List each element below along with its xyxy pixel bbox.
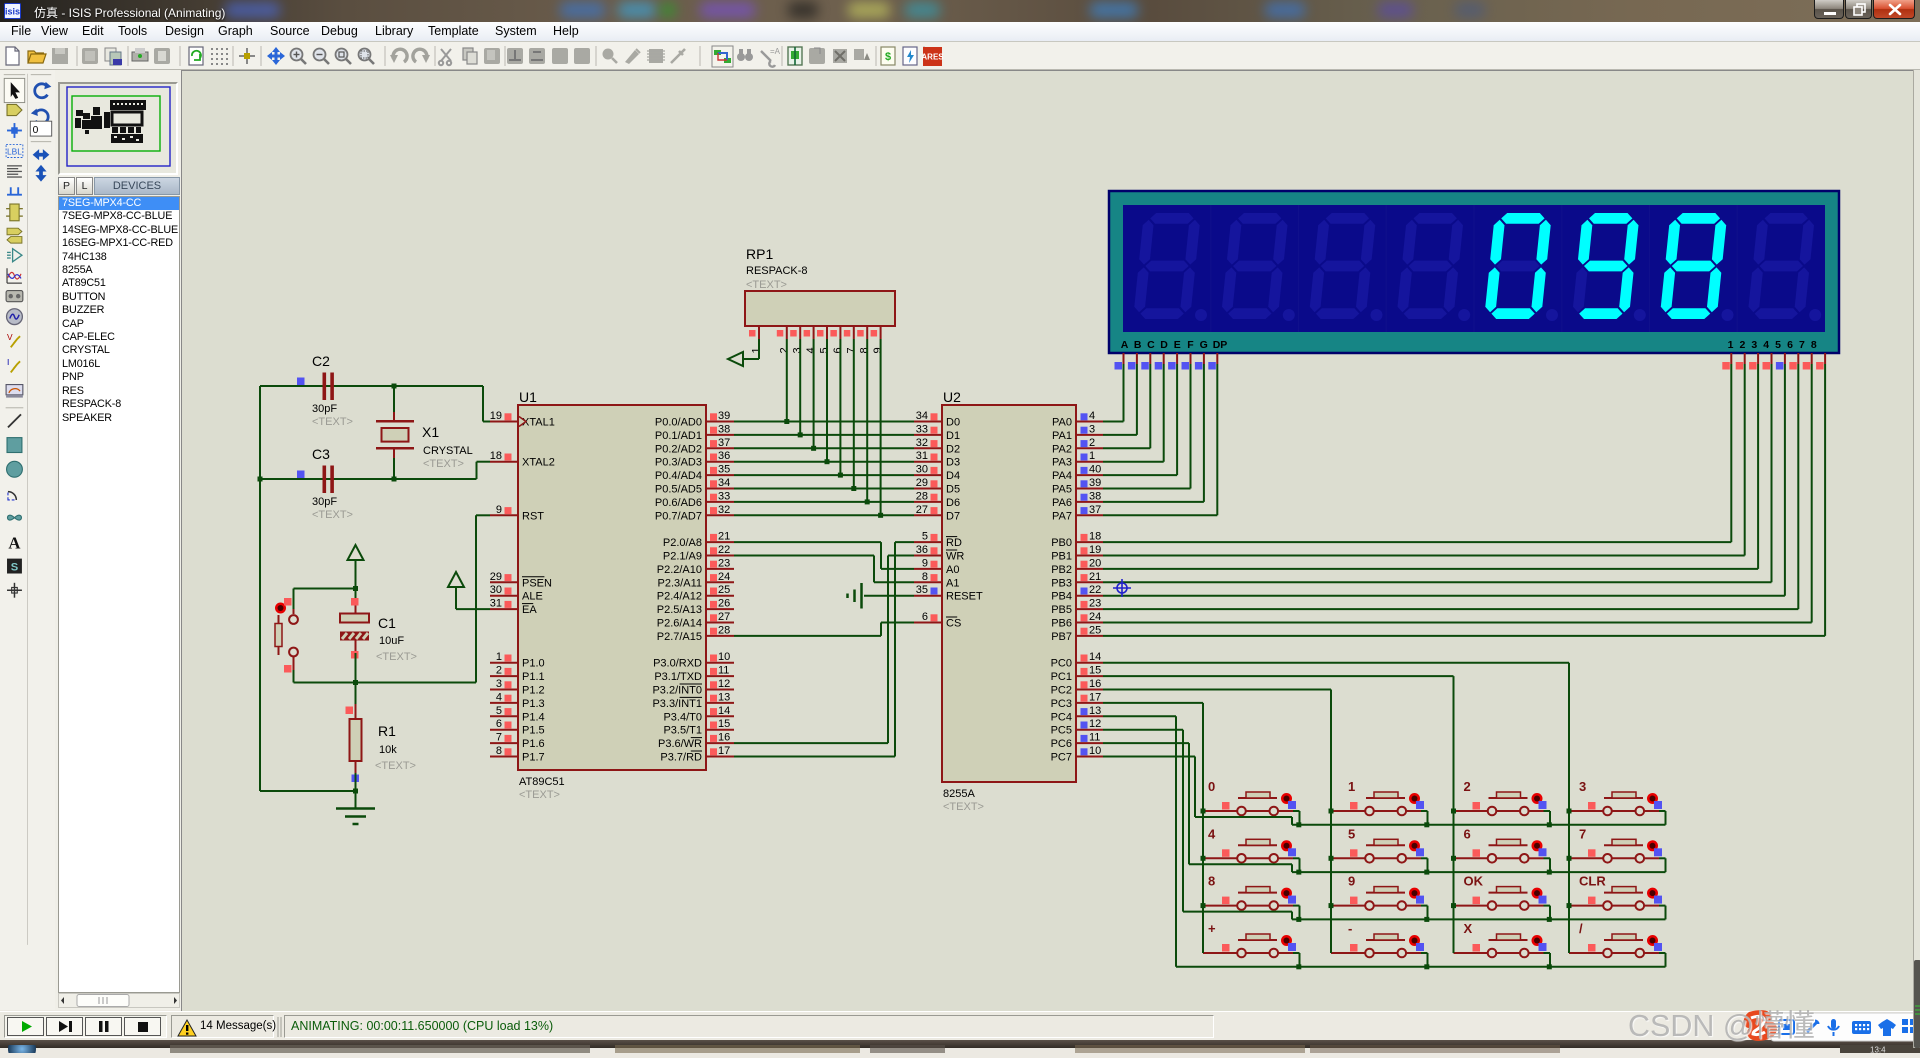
svg-text:8: 8 xyxy=(1208,874,1215,889)
svg-text:22: 22 xyxy=(1089,584,1101,596)
svg-text:31: 31 xyxy=(916,450,928,462)
svg-text:P2.1/A9: P2.1/A9 xyxy=(663,551,702,563)
svg-text:16: 16 xyxy=(1089,678,1101,690)
svg-text:P2.6/A14: P2.6/A14 xyxy=(657,618,702,630)
svg-text:D0: D0 xyxy=(946,417,960,429)
svg-text:8: 8 xyxy=(496,745,502,757)
svg-text:4: 4 xyxy=(496,691,502,703)
svg-text:35: 35 xyxy=(916,584,928,596)
svg-text:PC0: PC0 xyxy=(1051,658,1072,670)
svg-text:G: G xyxy=(1200,339,1208,351)
svg-text:4: 4 xyxy=(1089,410,1095,422)
svg-text:PA0: PA0 xyxy=(1052,417,1072,429)
svg-text:C2: C2 xyxy=(312,353,330,369)
svg-text:PC7: PC7 xyxy=(1051,752,1072,764)
svg-text:CS: CS xyxy=(946,618,961,630)
svg-text:/: / xyxy=(1579,921,1583,936)
svg-text:PA2: PA2 xyxy=(1052,443,1072,455)
svg-text:2: 2 xyxy=(1739,339,1745,351)
svg-text:P1.3: P1.3 xyxy=(522,698,545,710)
svg-text:2: 2 xyxy=(496,665,502,677)
svg-text:8: 8 xyxy=(1811,339,1817,351)
svg-text:12: 12 xyxy=(1089,718,1101,730)
svg-text:PC4: PC4 xyxy=(1051,711,1072,723)
svg-text:4: 4 xyxy=(805,347,817,353)
svg-text:PC5: PC5 xyxy=(1051,725,1072,737)
svg-text:P1.0: P1.0 xyxy=(522,658,545,670)
svg-text:12: 12 xyxy=(718,678,730,690)
svg-text:D4: D4 xyxy=(946,470,960,482)
svg-text:2: 2 xyxy=(1089,437,1095,449)
svg-text:B: B xyxy=(1134,339,1142,351)
svg-text:P2.3/A11: P2.3/A11 xyxy=(658,577,702,589)
svg-text:19: 19 xyxy=(1089,544,1101,556)
svg-text:1: 1 xyxy=(1728,339,1734,351)
svg-text:AT89C51: AT89C51 xyxy=(519,776,565,788)
svg-text:24: 24 xyxy=(1089,611,1101,623)
svg-text:6: 6 xyxy=(496,718,502,730)
svg-text:11: 11 xyxy=(1089,732,1100,744)
svg-text:2: 2 xyxy=(1464,779,1471,794)
svg-text:P3.1/TXD: P3.1/TXD xyxy=(654,671,702,683)
svg-text:P3.7/RD: P3.7/RD xyxy=(660,752,702,764)
svg-text:28: 28 xyxy=(718,624,730,636)
svg-text:<TEXT>: <TEXT> xyxy=(423,458,464,470)
svg-text:P0.3/AD3: P0.3/AD3 xyxy=(655,457,702,469)
svg-text:0: 0 xyxy=(33,125,39,136)
svg-text:PB3: PB3 xyxy=(1051,577,1072,589)
svg-text:P0.1/AD1: P0.1/AD1 xyxy=(655,430,702,442)
svg-text:P1.2: P1.2 xyxy=(522,685,545,697)
svg-text:1: 1 xyxy=(751,347,763,353)
svg-text:V: V xyxy=(7,332,13,342)
svg-text:3: 3 xyxy=(792,347,804,353)
svg-text:P3.2/INT0: P3.2/INT0 xyxy=(652,685,702,697)
svg-text:A0: A0 xyxy=(946,564,959,576)
svg-text:10: 10 xyxy=(1089,745,1101,757)
svg-text:P3.6/WR: P3.6/WR xyxy=(658,738,702,750)
svg-text:OK: OK xyxy=(1464,874,1484,889)
svg-text:15: 15 xyxy=(718,718,730,730)
svg-text:PSEN: PSEN xyxy=(522,577,552,589)
svg-text:3: 3 xyxy=(1751,339,1757,351)
svg-text:37: 37 xyxy=(718,437,730,449)
svg-text:3: 3 xyxy=(1579,779,1586,794)
svg-text:38: 38 xyxy=(1089,490,1101,502)
svg-text:6: 6 xyxy=(1464,826,1471,841)
svg-text:7: 7 xyxy=(1799,339,1805,351)
svg-text:D1: D1 xyxy=(946,430,960,442)
svg-text:P0.7/AD7: P0.7/AD7 xyxy=(655,510,702,522)
svg-text:ALE: ALE xyxy=(522,591,543,603)
svg-text:5: 5 xyxy=(922,531,928,543)
svg-text:P3.4/T0: P3.4/T0 xyxy=(663,711,702,723)
svg-text:U1: U1 xyxy=(519,389,537,405)
svg-text:PB5: PB5 xyxy=(1051,604,1072,616)
svg-text:30: 30 xyxy=(916,464,928,476)
svg-text:XTAL1: XTAL1 xyxy=(522,417,555,429)
svg-text:32: 32 xyxy=(718,504,730,516)
svg-text:7: 7 xyxy=(496,732,502,744)
svg-text:E: E xyxy=(1174,339,1181,351)
svg-text:6: 6 xyxy=(1787,339,1793,351)
svg-text:1: 1 xyxy=(496,651,502,663)
svg-text:9: 9 xyxy=(496,504,502,516)
svg-text:25: 25 xyxy=(1089,624,1101,636)
svg-text:C3: C3 xyxy=(312,446,330,462)
svg-text:23: 23 xyxy=(1089,598,1101,610)
svg-text:P1.5: P1.5 xyxy=(522,725,545,737)
svg-text:13: 13 xyxy=(718,691,730,703)
svg-text:PA1: PA1 xyxy=(1052,430,1072,442)
svg-text:D: D xyxy=(1160,339,1168,351)
svg-text:$: $ xyxy=(885,51,891,63)
svg-text:36: 36 xyxy=(916,544,928,556)
svg-text:A: A xyxy=(1121,339,1129,351)
svg-text:37: 37 xyxy=(1089,504,1101,516)
svg-text:30pF: 30pF xyxy=(312,496,337,508)
svg-text:8255A: 8255A xyxy=(943,788,975,800)
svg-text:RESET: RESET xyxy=(946,591,983,603)
svg-text:RP1: RP1 xyxy=(746,246,773,262)
svg-text:C1: C1 xyxy=(378,615,396,631)
svg-text:S: S xyxy=(11,562,18,574)
svg-text:9: 9 xyxy=(1348,874,1355,889)
svg-text:5: 5 xyxy=(1775,339,1781,351)
svg-text:<TEXT>: <TEXT> xyxy=(746,279,787,291)
svg-text:28: 28 xyxy=(916,490,928,502)
svg-text:P3.0/RXD: P3.0/RXD xyxy=(653,658,702,670)
svg-text:21: 21 xyxy=(718,531,730,543)
svg-text:19: 19 xyxy=(490,410,502,422)
svg-text:PA7: PA7 xyxy=(1052,510,1072,522)
svg-text:25: 25 xyxy=(718,584,730,596)
svg-text:<TEXT>: <TEXT> xyxy=(519,789,560,801)
svg-text:PB1: PB1 xyxy=(1051,551,1072,563)
svg-text:P2.0/A8: P2.0/A8 xyxy=(663,537,702,549)
svg-text:F: F xyxy=(1187,339,1194,351)
svg-text:39: 39 xyxy=(1089,477,1101,489)
svg-text:I: I xyxy=(7,357,9,367)
svg-text:27: 27 xyxy=(916,504,928,516)
svg-text:29: 29 xyxy=(916,477,928,489)
svg-text:21: 21 xyxy=(1089,571,1101,583)
svg-text:D5: D5 xyxy=(946,484,960,496)
svg-text:30: 30 xyxy=(490,584,502,596)
svg-text:11: 11 xyxy=(718,665,729,677)
svg-text:D6: D6 xyxy=(946,497,960,509)
svg-text:9: 9 xyxy=(872,347,884,353)
svg-text:EA: EA xyxy=(522,604,537,616)
svg-text:5: 5 xyxy=(819,347,831,353)
svg-text:PB6: PB6 xyxy=(1051,618,1072,630)
svg-text:DP: DP xyxy=(1213,339,1228,351)
svg-text:P0.4/AD4: P0.4/AD4 xyxy=(655,470,702,482)
svg-text:6: 6 xyxy=(832,347,844,353)
svg-text:38: 38 xyxy=(718,423,730,435)
svg-text:WR: WR xyxy=(946,551,964,563)
svg-text:PA5: PA5 xyxy=(1052,484,1072,496)
svg-text:RESPACK-8: RESPACK-8 xyxy=(746,265,808,277)
svg-text:33: 33 xyxy=(916,423,928,435)
svg-text:P2.2/A10: P2.2/A10 xyxy=(657,564,702,576)
svg-text:10k: 10k xyxy=(379,744,397,756)
svg-text:PA6: PA6 xyxy=(1052,497,1072,509)
svg-text:8: 8 xyxy=(922,571,928,583)
svg-text:10uF: 10uF xyxy=(379,635,404,647)
svg-text:PB7: PB7 xyxy=(1051,631,1072,643)
svg-text:33: 33 xyxy=(718,490,730,502)
svg-text:18: 18 xyxy=(490,450,502,462)
svg-text:2: 2 xyxy=(778,347,790,353)
svg-text:5: 5 xyxy=(496,705,502,717)
svg-text:P2.7/A15: P2.7/A15 xyxy=(657,631,702,643)
svg-text:=A: =A xyxy=(770,47,781,56)
svg-text:P0.6/AD6: P0.6/AD6 xyxy=(655,497,702,509)
svg-text:RST: RST xyxy=(522,510,544,522)
svg-text:40: 40 xyxy=(1089,464,1101,476)
svg-text:39: 39 xyxy=(718,410,730,422)
svg-text:15: 15 xyxy=(1089,665,1101,677)
svg-text:14: 14 xyxy=(718,705,730,717)
svg-text:D2: D2 xyxy=(946,443,960,455)
svg-text:0: 0 xyxy=(1208,779,1215,794)
svg-text:P1.4: P1.4 xyxy=(522,711,545,723)
svg-text:13: 13 xyxy=(1089,705,1101,717)
svg-text:X: X xyxy=(1464,921,1473,936)
svg-text:9: 9 xyxy=(922,557,928,569)
svg-text:17: 17 xyxy=(718,745,730,757)
svg-text:PC6: PC6 xyxy=(1051,738,1072,750)
svg-text:4: 4 xyxy=(1208,826,1216,841)
svg-text:PA4: PA4 xyxy=(1052,470,1072,482)
svg-text:14: 14 xyxy=(1089,651,1101,663)
svg-text:35: 35 xyxy=(718,464,730,476)
svg-text:P0.0/AD0: P0.0/AD0 xyxy=(655,417,702,429)
svg-text:CRYSTAL: CRYSTAL xyxy=(423,445,473,457)
svg-text:18: 18 xyxy=(1089,531,1101,543)
svg-text:10: 10 xyxy=(718,651,730,663)
svg-text:X1: X1 xyxy=(422,424,439,440)
svg-text:D7: D7 xyxy=(946,510,960,522)
svg-text:5: 5 xyxy=(1348,826,1355,841)
svg-text:P0.2/AD2: P0.2/AD2 xyxy=(655,443,702,455)
svg-text:36: 36 xyxy=(718,450,730,462)
svg-text:17: 17 xyxy=(1089,691,1101,703)
svg-text:31: 31 xyxy=(490,598,502,610)
svg-text:PB0: PB0 xyxy=(1051,537,1072,549)
svg-text:4: 4 xyxy=(1763,339,1769,351)
svg-text:3: 3 xyxy=(1089,423,1095,435)
svg-text:23: 23 xyxy=(718,557,730,569)
svg-text:PB2: PB2 xyxy=(1051,564,1072,576)
svg-text:32: 32 xyxy=(916,437,928,449)
svg-text:<TEXT>: <TEXT> xyxy=(312,416,353,428)
svg-text:7: 7 xyxy=(845,347,857,353)
svg-text:RD: RD xyxy=(946,537,962,549)
svg-text:+: + xyxy=(1208,921,1216,936)
svg-text:P3.5/T1: P3.5/T1 xyxy=(663,725,702,737)
svg-text:PB4: PB4 xyxy=(1051,591,1072,603)
svg-text:-: - xyxy=(1348,921,1352,936)
svg-text:R1: R1 xyxy=(378,723,396,739)
svg-text:A: A xyxy=(8,533,20,552)
svg-text:PA3: PA3 xyxy=(1052,457,1072,469)
svg-text:C: C xyxy=(1147,339,1155,351)
svg-text:P1.1: P1.1 xyxy=(522,671,545,683)
svg-text:P3.3/INT1: P3.3/INT1 xyxy=(652,698,702,710)
svg-text:XTAL2: XTAL2 xyxy=(522,457,555,469)
svg-text:P2.5/A13: P2.5/A13 xyxy=(657,604,702,616)
svg-text:P2.4/A12: P2.4/A12 xyxy=(657,591,702,603)
svg-text:<TEXT>: <TEXT> xyxy=(312,509,353,521)
svg-text:A1: A1 xyxy=(946,577,959,589)
svg-text:PC3: PC3 xyxy=(1051,698,1072,710)
svg-text:P0.5/AD5: P0.5/AD5 xyxy=(655,484,702,496)
svg-text:34: 34 xyxy=(916,410,928,422)
svg-text:PC1: PC1 xyxy=(1051,671,1072,683)
svg-text:1: 1 xyxy=(1348,779,1355,794)
svg-text:P1.7: P1.7 xyxy=(522,752,545,764)
svg-text:16: 16 xyxy=(718,732,730,744)
svg-text:30pF: 30pF xyxy=(312,403,337,415)
svg-text:26: 26 xyxy=(718,598,730,610)
svg-text:PC2: PC2 xyxy=(1051,685,1072,697)
svg-text:8: 8 xyxy=(859,347,871,353)
svg-text:<TEXT>: <TEXT> xyxy=(943,801,984,813)
svg-text:20: 20 xyxy=(1089,557,1101,569)
svg-text:34: 34 xyxy=(718,477,730,489)
svg-text:22: 22 xyxy=(718,544,730,556)
svg-text:D3: D3 xyxy=(946,457,960,469)
svg-text:29: 29 xyxy=(490,571,502,583)
svg-text:<TEXT>: <TEXT> xyxy=(375,760,416,772)
svg-text:24: 24 xyxy=(718,571,730,583)
svg-text:27: 27 xyxy=(718,611,730,623)
svg-text:U2: U2 xyxy=(943,389,961,405)
svg-text:ARES: ARES xyxy=(921,53,944,62)
svg-text:CLR: CLR xyxy=(1579,874,1606,889)
svg-text:<TEXT>: <TEXT> xyxy=(376,651,417,663)
svg-text:LBL: LBL xyxy=(7,147,22,157)
svg-text:6: 6 xyxy=(922,611,928,623)
svg-text:isis: isis xyxy=(5,7,20,17)
svg-text:P1.6: P1.6 xyxy=(522,738,545,750)
svg-text:3: 3 xyxy=(496,678,502,690)
svg-text:7: 7 xyxy=(1579,826,1586,841)
svg-text:1: 1 xyxy=(1089,450,1095,462)
